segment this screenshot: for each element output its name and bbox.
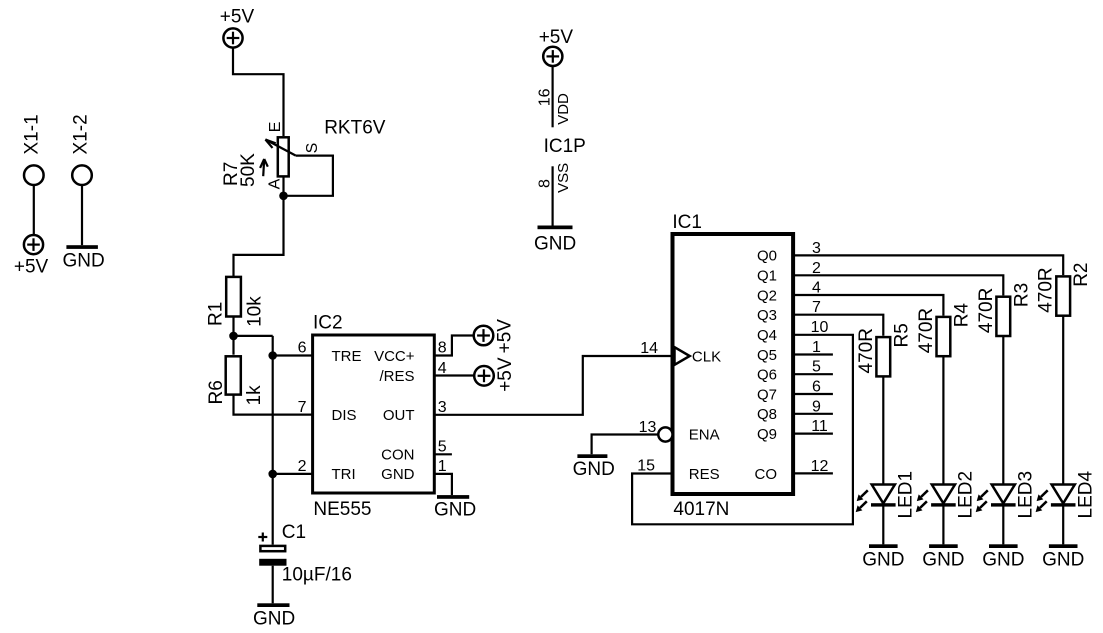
svg-text:+5V: +5V [495, 357, 516, 392]
svg-text:Q4: Q4 [757, 327, 777, 344]
svg-text:S: S [304, 143, 321, 154]
wire Q7 stub [793, 393, 833, 395]
wire junction to rail [234, 335, 273, 337]
svg-text:R2: R2 [1071, 263, 1092, 287]
svg-text:CLK: CLK [692, 348, 721, 365]
op-amp IC2 NE555 box [313, 313, 435, 520]
svg-text:12: 12 [811, 458, 829, 475]
potentiometer R7 RKT6V [221, 118, 386, 190]
svg-text:IC1: IC1 [672, 212, 702, 233]
resistor R4 [916, 303, 973, 357]
wire OUT to CLK [434, 356, 672, 415]
wire +5V to R7 top [233, 48, 284, 136]
svg-text:X1-1: X1-1 [22, 114, 43, 154]
svg-text:GND: GND [1042, 549, 1084, 570]
svg-text:NE555: NE555 [313, 499, 371, 520]
svg-text:IC2: IC2 [313, 313, 343, 334]
wire IC1P VDD pin [551, 66, 553, 127]
svg-text:5: 5 [812, 359, 821, 376]
svg-text:11: 11 [811, 418, 828, 435]
svg-text:R6: R6 [206, 380, 227, 404]
node R1/R6 junction [229, 332, 238, 341]
svg-text:470R: 470R [1036, 267, 1057, 312]
connector X1-2 pad [72, 165, 92, 185]
wire pin5 stub [434, 453, 452, 455]
svg-text:1: 1 [812, 339, 821, 356]
svg-text:ENA: ENA [689, 426, 720, 443]
svg-text:C1: C1 [282, 522, 306, 543]
svg-text:13: 13 [639, 419, 657, 436]
svg-text:8: 8 [438, 340, 447, 357]
wire R3 to LED3 [1002, 337, 1004, 545]
wire Q8 stub [793, 413, 833, 415]
svg-text:GND: GND [922, 549, 964, 570]
supply +5V symbol X1-1 [14, 235, 49, 278]
node R7 bottom junction [279, 192, 288, 201]
svg-text:Q3: Q3 [757, 307, 777, 324]
LED LED4 [1036, 471, 1097, 519]
svg-text:GND: GND [534, 233, 576, 254]
svg-text:CO: CO [755, 466, 778, 483]
svg-text:Q8: Q8 [757, 406, 777, 423]
wire rail vertical [272, 336, 274, 545]
svg-text:X1-2: X1-2 [71, 114, 92, 154]
svg-text:9: 9 [812, 398, 821, 415]
wire R1 bottom [232, 316, 234, 355]
svg-text:5: 5 [438, 438, 447, 455]
svg-text:6: 6 [298, 340, 307, 357]
wire Q9 stub [793, 433, 833, 435]
supply +5V symbol top [220, 7, 255, 48]
wire ENA to GND [592, 435, 659, 455]
svg-text:VSS: VSS [555, 163, 572, 193]
wire R7 bottom down [234, 178, 284, 278]
svg-text:Q6: Q6 [757, 367, 777, 384]
resistor R3 [976, 283, 1033, 336]
svg-text:E: E [267, 122, 284, 133]
svg-text:GND: GND [434, 500, 476, 521]
capacitor C1 [258, 522, 352, 586]
svg-text:TRE: TRE [332, 348, 362, 365]
svg-text:Q0: Q0 [757, 248, 777, 265]
wire Q3 to R5 [793, 315, 883, 336]
svg-text:GND: GND [381, 466, 415, 483]
svg-text:OUT: OUT [383, 407, 415, 424]
wire R5 to LED1 [882, 377, 884, 544]
wire Q5 stub [793, 353, 833, 355]
svg-text:+5V: +5V [494, 319, 515, 354]
svg-text:Q9: Q9 [757, 426, 777, 443]
svg-text:6: 6 [812, 379, 821, 396]
wire C1 to GND [272, 566, 274, 604]
wire pin4 to +5V [434, 374, 474, 376]
svg-text:+5V: +5V [14, 257, 49, 278]
supply +5V symbol IC1P [539, 27, 574, 66]
LED LED3 [976, 471, 1037, 519]
svg-text:16: 16 [537, 88, 554, 106]
ground ENA [573, 454, 615, 480]
svg-text:VCC+: VCC+ [374, 348, 415, 365]
ground IC2 pin1 [434, 495, 476, 521]
svg-text:R3: R3 [1011, 283, 1032, 307]
inverter bubble ENA [658, 427, 672, 441]
wire Q0 to R2 [793, 255, 1063, 275]
svg-text:470R: 470R [976, 288, 997, 333]
ground LED1 [862, 544, 904, 570]
svg-text:GND: GND [982, 549, 1024, 570]
resistor R1 [206, 277, 266, 327]
node rail TRI junction [268, 470, 277, 479]
svg-text:3: 3 [438, 399, 447, 416]
svg-text:VDD: VDD [555, 93, 572, 125]
svg-text:RES: RES [689, 466, 720, 483]
svg-text:470R: 470R [856, 328, 877, 373]
svg-text:Q1: Q1 [757, 268, 777, 285]
svg-text:2: 2 [812, 260, 821, 277]
svg-text:470R: 470R [916, 308, 937, 353]
svg-text:LED1: LED1 [896, 471, 917, 519]
wire Q6 stub [793, 373, 833, 375]
ground IC1P [534, 226, 576, 255]
svg-text:LED3: LED3 [1016, 471, 1037, 519]
node rail TRE junction [268, 351, 277, 360]
svg-text:50K: 50K [238, 153, 259, 187]
svg-text:Q2: Q2 [757, 287, 777, 304]
wire Q1 to R3 [793, 275, 1003, 295]
svg-text:A: A [267, 178, 284, 189]
wire pin6 stub [273, 354, 313, 356]
svg-text:Q5: Q5 [757, 347, 777, 364]
LED LED2 [916, 471, 977, 519]
svg-text:10µF/16: 10µF/16 [282, 565, 352, 586]
supply +5V symbol pin4 [474, 357, 516, 392]
svg-text:2: 2 [298, 458, 307, 475]
svg-text:GND: GND [573, 459, 615, 480]
svg-text:10k: 10k [244, 296, 265, 327]
wire RES to Q4 loop [632, 335, 853, 525]
svg-text:IC1P: IC1P [544, 136, 586, 157]
svg-text:8: 8 [537, 179, 554, 188]
svg-text:R5: R5 [891, 323, 912, 347]
svg-text:GND: GND [862, 549, 904, 570]
svg-text:R1: R1 [206, 302, 227, 326]
svg-text:+5V: +5V [539, 27, 574, 48]
svg-text:LED4: LED4 [1075, 471, 1096, 519]
wire CO stub [793, 472, 833, 474]
ground LED2 [922, 544, 964, 570]
svg-text:7: 7 [298, 399, 307, 416]
wire pin1 to GND [434, 474, 452, 495]
wire R4 to LED2 [942, 357, 944, 545]
svg-text:+5V: +5V [220, 7, 255, 28]
svg-text:3: 3 [812, 240, 821, 257]
svg-text:4017N: 4017N [673, 499, 729, 520]
wire R2 to LED4 [1062, 316, 1064, 544]
svg-text:10: 10 [811, 319, 829, 336]
svg-text:4: 4 [812, 280, 821, 297]
ground LED4 [1042, 544, 1084, 570]
svg-text:TRI: TRI [332, 466, 356, 483]
svg-text:GND: GND [63, 251, 105, 272]
LED LED1 [856, 471, 917, 519]
svg-text:15: 15 [637, 458, 655, 475]
wire pin2 stub [273, 473, 313, 475]
svg-text:DIS: DIS [332, 407, 357, 424]
svg-text:Q7: Q7 [757, 386, 777, 403]
wire pin8 to +5V [434, 336, 473, 356]
svg-text:CON: CON [381, 447, 414, 464]
wire Q2 to R4 [793, 295, 943, 316]
wire R6 bottom to DIS [234, 395, 313, 414]
svg-text:1: 1 [438, 458, 447, 475]
resistor R5 [856, 323, 913, 376]
counter IC1 4017N box [672, 212, 793, 520]
ground X1-2 [63, 245, 105, 272]
wire X1-2 to GND [81, 185, 83, 245]
resistor R2 [1036, 263, 1093, 316]
clock input wedge [675, 347, 690, 365]
svg-text:7: 7 [812, 299, 821, 316]
svg-text:RKT6V: RKT6V [324, 118, 386, 139]
wire R7 wiper S loop [284, 156, 333, 196]
svg-text:/RES: /RES [379, 368, 414, 385]
wire IC1P VSS pin [551, 166, 553, 225]
svg-text:14: 14 [640, 340, 658, 357]
wire X1-1 to +5V [33, 185, 35, 235]
resistor R6 [206, 356, 265, 405]
svg-text:1k: 1k [244, 385, 265, 406]
svg-text:LED2: LED2 [956, 471, 977, 519]
svg-text:R4: R4 [951, 303, 972, 328]
svg-text:GND: GND [253, 608, 295, 629]
connector X1-1 pad [24, 165, 44, 185]
ground LED3 [982, 544, 1024, 570]
supply +5V symbol pin8 [474, 319, 516, 354]
svg-text:4: 4 [438, 360, 447, 377]
ground C1 [253, 603, 295, 629]
